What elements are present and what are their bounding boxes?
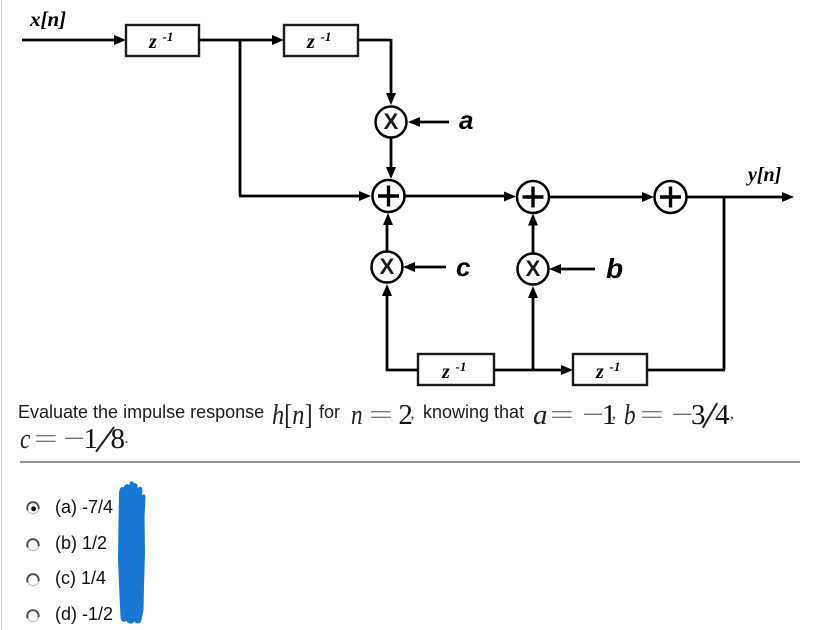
wire Xa to adder A1 <box>386 138 396 179</box>
node y[n] label <box>746 164 782 186</box>
svg-text:a: a <box>459 105 473 135</box>
svg-text:z: z <box>595 361 604 383</box>
question text line 2 <box>20 425 30 454</box>
slash of 1/8 <box>95 426 115 452</box>
svg-text:y[n]: y[n] <box>746 164 782 186</box>
blue marker stroke over answers <box>105 472 165 630</box>
svg-text:c: c <box>456 252 471 282</box>
svg-text:-1: -1 <box>610 359 621 374</box>
option d label <box>55 605 113 623</box>
svg-text:z: z <box>441 361 450 383</box>
wire Xc to adder A1 <box>383 213 393 251</box>
option a label <box>55 498 113 516</box>
delay block Z1 <box>126 25 199 56</box>
question text line 1 <box>18 403 264 421</box>
wire up to multiplier Xc <box>382 284 392 371</box>
label c <box>456 252 471 282</box>
wire adder A1 to adder A2 <box>405 192 516 202</box>
label b <box>606 253 623 284</box>
wire adder A2 to adder A3 <box>549 192 654 202</box>
option b radio <box>26 538 40 552</box>
wire bottom left into Z3 <box>386 369 418 372</box>
adder A3 <box>655 181 687 213</box>
wire Z3 to Z4 with junction <box>494 365 573 375</box>
delay block Z3 <box>418 354 494 385</box>
wire Xb to adder A2 <box>528 214 538 254</box>
svg-text:-1: -1 <box>163 29 174 44</box>
wire coefficient b into Xb <box>549 264 595 274</box>
horizontal divider <box>20 461 800 463</box>
adder A1 <box>373 180 405 212</box>
svg-text:z: z <box>148 31 157 53</box>
option d radio <box>26 609 40 623</box>
svg-text:X: X <box>526 256 541 281</box>
wire coefficient c into Xc <box>403 262 446 272</box>
wire Z1 to Z2 with junction <box>199 35 284 45</box>
wire junction down to adder A1 <box>239 39 371 201</box>
left page border <box>1 0 2 630</box>
adder A2 <box>517 181 549 213</box>
option a radio (selected) <box>26 501 40 515</box>
multiplier Xa <box>376 107 407 138</box>
svg-text:x[n]: x[n] <box>29 7 66 31</box>
wire input x[n] to Z1 <box>22 35 126 45</box>
delay block Z4 <box>573 354 647 385</box>
wire adder A3 to output y[n] with junction <box>687 192 794 202</box>
svg-text:X: X <box>384 109 399 134</box>
option c radio <box>26 573 40 587</box>
wire output junction down to Z4 <box>647 196 725 370</box>
svg-text:z: z <box>306 31 315 53</box>
delay block Z2 <box>284 25 358 56</box>
option c label <box>55 569 106 587</box>
label a <box>459 105 473 135</box>
node x[n] label <box>29 7 66 31</box>
multiplier Xc <box>372 252 403 283</box>
option b label <box>55 534 107 552</box>
svg-text:b: b <box>606 253 623 284</box>
svg-text:-1: -1 <box>456 359 467 374</box>
svg-text:-1: -1 <box>321 29 332 44</box>
wire junction up to multiplier Xb <box>528 286 538 371</box>
svg-text:X: X <box>380 254 395 279</box>
multiplier Xb <box>518 254 549 285</box>
slash of 3/4 <box>702 402 718 428</box>
wire Z2 down to multiplier Xa <box>357 39 396 105</box>
wire coefficient a into Xa <box>408 117 449 127</box>
